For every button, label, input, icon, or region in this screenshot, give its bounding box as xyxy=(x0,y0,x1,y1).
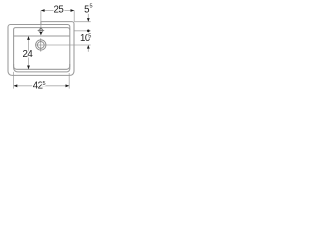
bowl back edge y=36 xyxy=(14,35,70,37)
svg-text:5: 5 xyxy=(42,81,45,87)
extension line x=13.6 bottom left xyxy=(13,72,15,89)
svg-text:5: 5 xyxy=(88,33,91,39)
vertical dim segments x=88.7 (5.5 and 10.5) xyxy=(87,14,89,22)
dim line 24 x=28.5 xyxy=(28,36,30,69)
washbasin top view technical drawing xyxy=(8,11,91,89)
svg-text:42: 42 xyxy=(33,81,43,92)
svg-text:5: 5 xyxy=(89,4,92,10)
dimension texts xyxy=(23,4,93,92)
bowl bottom edge xyxy=(14,64,70,69)
inner rim contour xyxy=(14,28,70,72)
dim 42.5 arrows xyxy=(14,84,18,87)
dim 25 arrows xyxy=(41,9,45,12)
extension line x=74.2 from dim 25 down to outer corner xyxy=(73,11,75,22)
arrowheads xyxy=(14,9,90,87)
dim 24 arrows xyxy=(27,36,30,40)
dim line 42.5 y=85.8 xyxy=(14,85,70,87)
svg-text:24: 24 xyxy=(23,49,34,60)
10.5 arrow up xyxy=(87,45,90,49)
svg-text:25: 25 xyxy=(54,4,64,15)
extension line x=40.9 from dim 25 down through tap hole xyxy=(40,11,42,33)
chain dim dot xyxy=(87,30,90,33)
right extension line y=21.7 xyxy=(74,21,91,23)
outer contour (stepped top) xyxy=(8,22,74,76)
5.5 arrow down xyxy=(87,18,90,22)
right extension line y=30.8 xyxy=(74,30,91,32)
tap hole symbol xyxy=(39,29,43,33)
extension line x=69.2 bottom right xyxy=(68,73,70,89)
mid contour line y=24.5 right section into V2 xyxy=(41,25,70,30)
dim line 25 y=10.5 xyxy=(41,10,74,12)
crosshair / extension line y=45.0 xyxy=(35,44,90,46)
drain symbol xyxy=(36,40,46,50)
tap extension arrow down xyxy=(40,32,43,35)
svg-text:5: 5 xyxy=(84,4,89,15)
